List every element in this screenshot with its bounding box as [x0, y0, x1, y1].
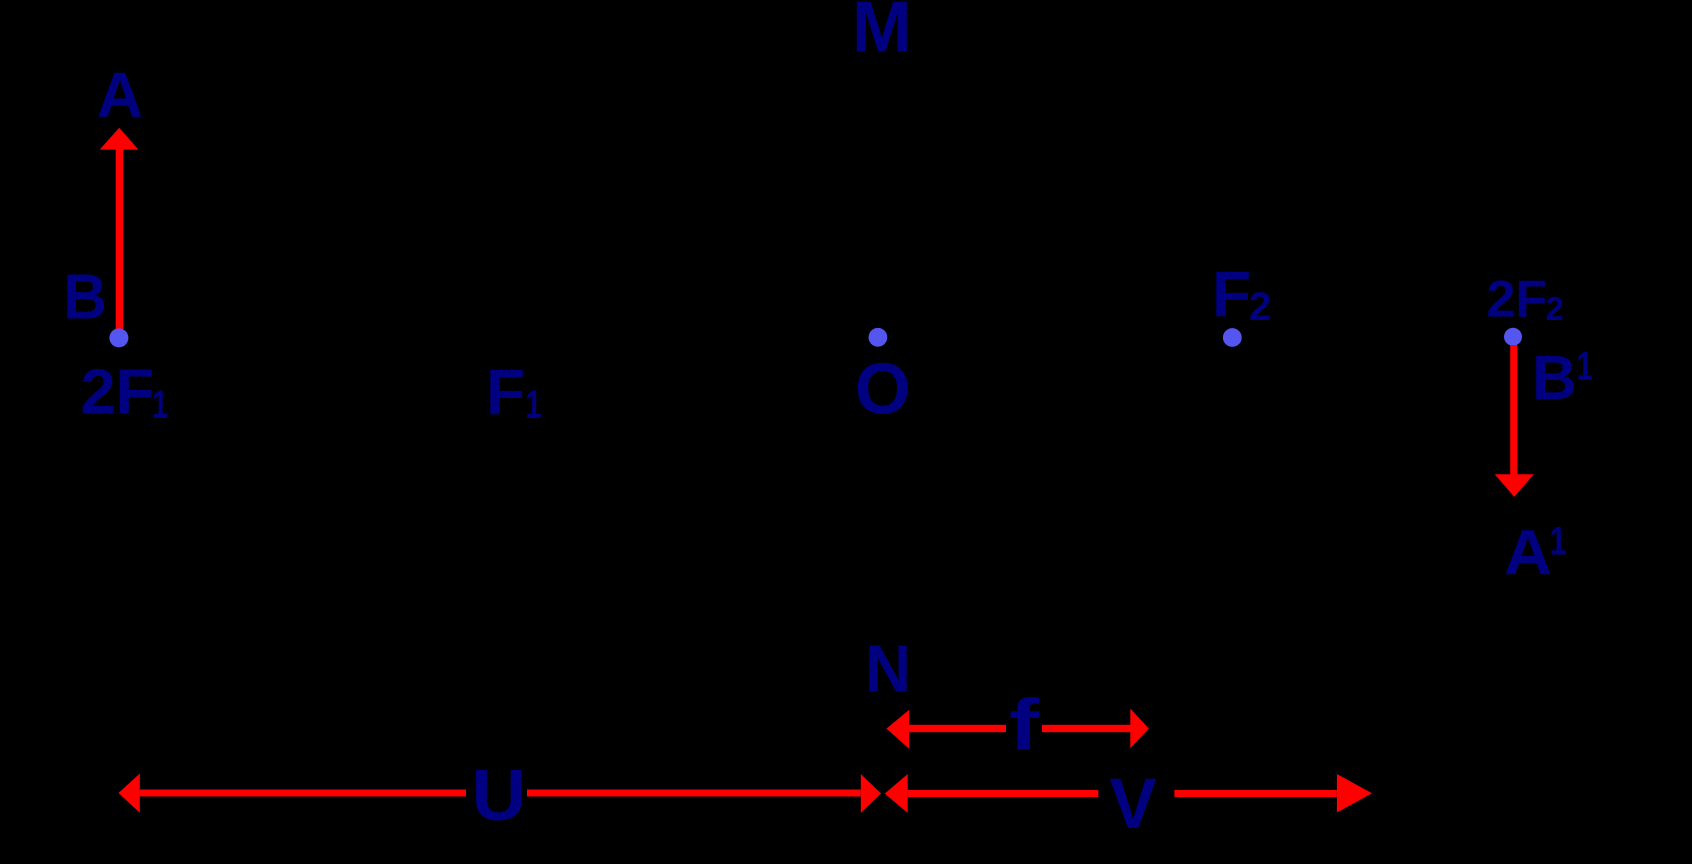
- svg-text:N: N: [865, 632, 911, 707]
- svg-text:2F: 2F: [81, 357, 155, 427]
- svg-text:2F: 2F: [1487, 271, 1548, 329]
- svg-text:2: 2: [1249, 285, 1271, 329]
- svg-text:A: A: [1504, 517, 1552, 589]
- svg-text:F: F: [1212, 258, 1251, 330]
- node O dot (optical centre): [869, 328, 888, 347]
- svg-text:V: V: [1109, 765, 1156, 844]
- svg-text:O: O: [855, 349, 911, 429]
- svg-text:1: 1: [152, 383, 168, 427]
- object arrow AB (red, up): [100, 128, 139, 338]
- U measurement double arrow: [119, 774, 882, 814]
- svg-text:1: 1: [526, 383, 542, 427]
- svg-text:f: f: [1009, 686, 1040, 766]
- svg-text:M: M: [852, 0, 912, 67]
- svg-text:2: 2: [1546, 290, 1564, 327]
- node 2F2 dot: [1504, 328, 1522, 346]
- svg-text:A: A: [97, 59, 143, 131]
- svg-text:B: B: [1532, 344, 1577, 413]
- V measurement double arrow: [885, 774, 1372, 813]
- image arrow B1-A1 (red, down): [1495, 345, 1534, 497]
- svg-text:F: F: [486, 356, 525, 428]
- svg-text:B: B: [63, 260, 107, 332]
- f measurement double arrow: [886, 709, 1148, 749]
- svg-text:1: 1: [1577, 344, 1593, 388]
- svg-text:1: 1: [1550, 520, 1567, 564]
- node 2F1 dot: [109, 328, 128, 347]
- svg-text:U: U: [472, 756, 527, 836]
- node F2 dot: [1223, 328, 1242, 347]
